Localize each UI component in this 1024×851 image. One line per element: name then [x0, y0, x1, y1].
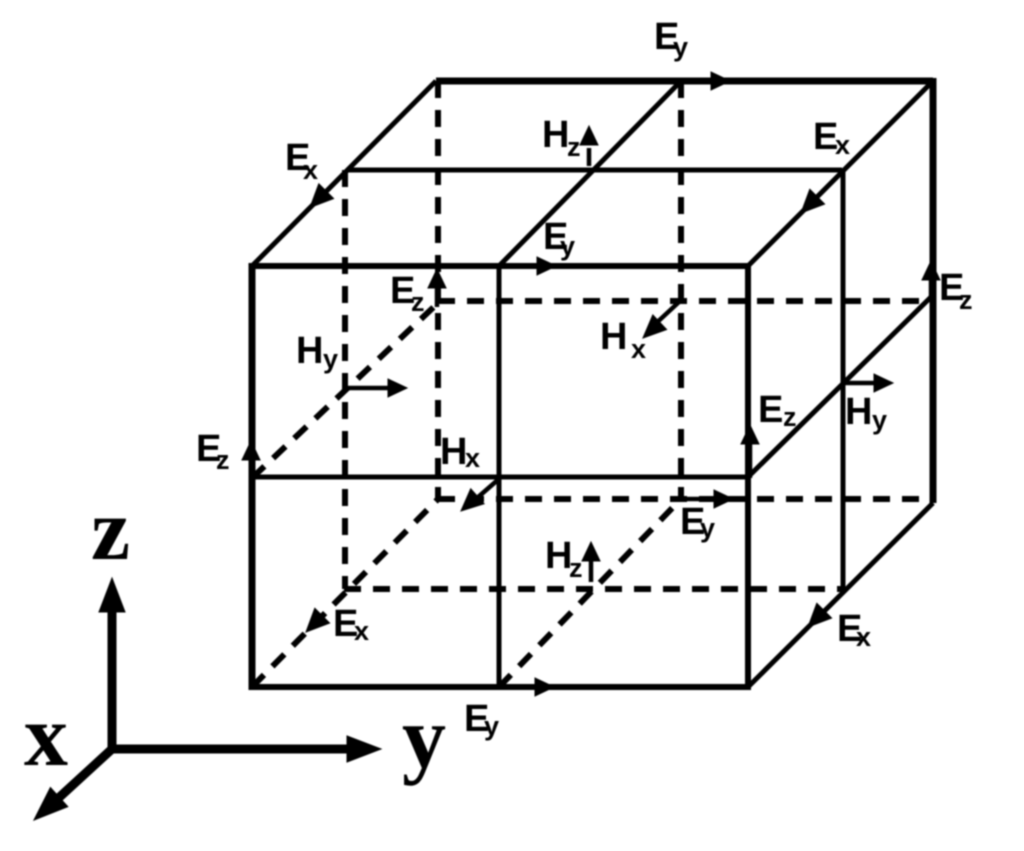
wire: left face mid vertical (hidden): [342, 170, 348, 589]
svg-text:y: y: [872, 405, 887, 435]
arrow Hz top: [587, 148, 592, 166]
arrow Ey on back bottom edge: [681, 497, 719, 502]
wire: back left vertical (hidden): [435, 81, 441, 499]
arrow Ex on right top diagonal: [801, 189, 825, 213]
label Ez (front right): [758, 389, 797, 432]
svg-text:x: x: [465, 443, 480, 473]
label Hx (right): [600, 316, 646, 364]
svg-text:z: z: [783, 402, 797, 432]
svg-text:E: E: [758, 389, 783, 431]
label Ey (back bottom): [680, 501, 715, 543]
label Ez (front left): [196, 428, 230, 475]
wire: right face mid vertical: [841, 170, 846, 589]
svg-text:z: z: [567, 132, 581, 162]
wire: bottom mid diagonal (hidden): [499, 499, 681, 687]
label Ey (back top): [654, 16, 688, 62]
wire: left face mid diagonal (hidden): [252, 303, 438, 478]
x axis: [52, 749, 112, 804]
svg-text:x: x: [303, 155, 318, 185]
svg-text:x: x: [631, 334, 646, 364]
label Hx (left): [440, 431, 480, 473]
svg-text:y: y: [323, 344, 338, 374]
wire: mid top diagonal: [499, 81, 681, 266]
wire: back right vertical edge: [930, 78, 937, 503]
svg-text:y: y: [700, 513, 715, 543]
label Ez (back left): [390, 270, 425, 317]
svg-text:H: H: [845, 391, 872, 433]
wire: front left edge: [249, 263, 256, 690]
svg-text:z: z: [91, 482, 130, 579]
wire: bottom left diagonal (hidden): [252, 499, 438, 687]
label Ey (front bottom): [464, 698, 499, 741]
wire: right top diagonal: [748, 81, 933, 266]
label Hz (top): [542, 114, 581, 162]
label Ex (right bottom): [837, 608, 871, 652]
arrow Ex on left top diagonal: [310, 184, 334, 208]
wire: left top diagonal: [252, 81, 436, 266]
arrow Hx left: [469, 478, 500, 505]
svg-text:x: x: [354, 616, 369, 646]
label Hy (left): [296, 330, 338, 374]
svg-text:y: y: [560, 231, 575, 261]
coordinate axes: [34, 578, 381, 820]
svg-text:y: y: [402, 690, 446, 787]
wire: back bottom edge (hidden): [438, 496, 931, 502]
svg-text:z: z: [216, 445, 230, 475]
arrow Ey on front bottom edge: [505, 685, 540, 690]
svg-text:H: H: [440, 431, 467, 473]
wire: bottom mid horizontal (hidden): [344, 586, 843, 592]
wire: back mid horizontal (hidden): [438, 298, 931, 304]
svg-text:x: x: [835, 130, 850, 160]
label Ez (back right): [939, 267, 973, 315]
wire: right face mid diagonal: [748, 297, 931, 477]
arrow Hy left: [348, 386, 393, 391]
svg-text:z: z: [411, 287, 425, 317]
arrow Ez on front left edge: [249, 455, 254, 478]
svg-text:y: y: [484, 711, 499, 741]
svg-text:z: z: [959, 285, 973, 315]
wire: back mid vertical (hidden): [678, 81, 684, 499]
label Hy (right): [845, 391, 887, 435]
arrow Ey on front top edge: [502, 264, 542, 269]
wire: front top edge: [249, 263, 748, 269]
svg-text:H: H: [542, 114, 569, 156]
svg-text:x: x: [856, 622, 871, 652]
label Hz (bottom): [545, 535, 583, 583]
label Ex (right top): [813, 116, 850, 160]
wire: front mid vertical: [497, 266, 502, 687]
wire: top mid horizontal: [347, 168, 842, 173]
arrow Hx right: [652, 302, 679, 327]
svg-text:x: x: [24, 688, 68, 785]
arrow Ez on back left vertical: [435, 283, 440, 307]
label Ex (left top): [285, 137, 318, 185]
z axis: [108, 600, 117, 749]
svg-text:H: H: [600, 316, 627, 358]
svg-text:H: H: [296, 330, 323, 372]
arrow Hz bottom: [589, 556, 594, 582]
arrow Hy right: [841, 381, 879, 386]
wire: front mid horizontal: [252, 475, 748, 480]
svg-text:z: z: [569, 553, 583, 583]
wire: bottom right diagonal edge: [748, 503, 933, 687]
wire: front bottom edge: [249, 684, 748, 690]
arrow Ex on bottom right diagonal: [808, 603, 832, 627]
label Ex (left bottom): [333, 603, 369, 646]
arrow Ez on back right edge: [929, 275, 934, 300]
wire: front right edge: [745, 263, 751, 690]
arrow Ez on front right edge: [748, 439, 753, 478]
arrow Ey on back top edge: [711, 72, 730, 90]
arrow Ex on bottom left diagonal: [306, 608, 330, 632]
y axis: [112, 745, 352, 754]
label Ey (front top): [543, 216, 575, 261]
wire: back top edge: [436, 78, 933, 85]
svg-text:y: y: [673, 32, 688, 62]
